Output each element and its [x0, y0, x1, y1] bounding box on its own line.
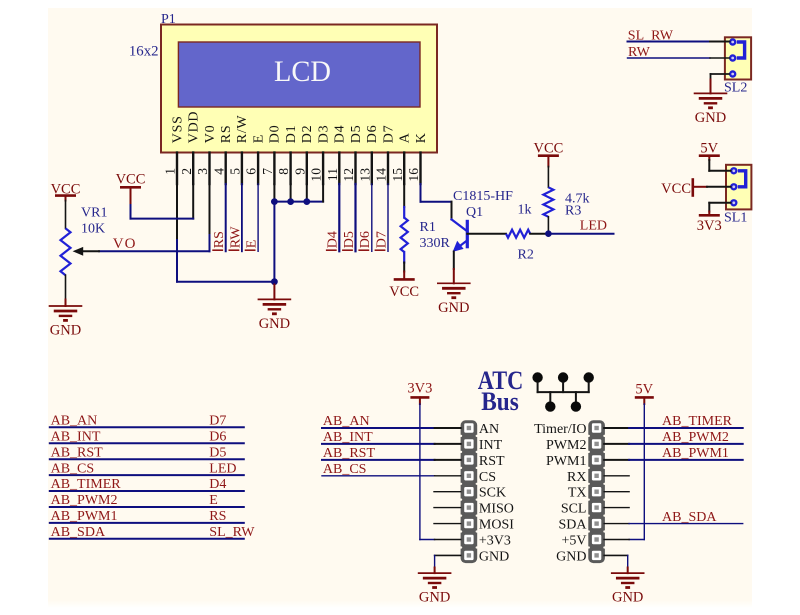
power 5V (SL1): [699, 140, 720, 160]
svg-text:GND: GND: [479, 549, 509, 564]
P1 pin 13 (D6): [357, 125, 380, 184]
svg-text:GND: GND: [556, 549, 586, 564]
svg-text:GND: GND: [419, 590, 450, 606]
svg-text:5: 5: [228, 168, 243, 175]
svg-text:10: 10: [309, 168, 324, 182]
svg-text:E: E: [245, 240, 260, 249]
svg-text:1: 1: [163, 168, 178, 175]
svg-text:SDA: SDA: [558, 518, 587, 533]
P1 pin 5 (R/W): [228, 115, 251, 184]
svg-text:RX: RX: [567, 470, 586, 485]
wire AB_SDA: [604, 523, 743, 525]
P1 pin 2 (VDD): [179, 111, 202, 184]
svg-text:D5: D5: [342, 231, 357, 248]
wire R1 to VCC: [403, 263, 405, 272]
wire Q1 base to R2: [467, 233, 506, 235]
resistor R1: [401, 207, 408, 263]
wire SL2 pin3 to GND: [711, 74, 730, 93]
net label D5 (rotated): [342, 231, 357, 250]
wire pin 8 stub: [290, 184, 292, 202]
svg-text:LED: LED: [580, 219, 607, 234]
stub MISO: [434, 507, 461, 509]
wire net AB_SDA/SL_RW: [50, 538, 244, 540]
svg-text:PWM2: PWM2: [546, 438, 586, 453]
svg-text:LED: LED: [209, 461, 236, 476]
svg-text:VDD: VDD: [187, 111, 202, 143]
wire left header GND: [435, 555, 461, 573]
svg-text:AB_TIMER: AB_TIMER: [51, 477, 122, 492]
net label D6 (rotated): [358, 231, 373, 250]
wire Q1 emitter down: [453, 252, 455, 270]
P1 pin 11 (D4): [325, 125, 348, 184]
svg-text:D5: D5: [209, 445, 226, 460]
svg-text:GND: GND: [259, 316, 290, 332]
svg-text:LCD: LCD: [274, 55, 331, 88]
wire pin 10 stub: [322, 184, 324, 202]
svg-text:11: 11: [325, 168, 340, 181]
wire AB_RST: [322, 459, 461, 461]
svg-text:3: 3: [195, 168, 210, 175]
wire R3 to node: [547, 217, 549, 234]
svg-text:R2: R2: [518, 248, 534, 263]
svg-text:E: E: [251, 134, 266, 143]
wire VCC to VDD pin2: [131, 184, 194, 219]
wire AB_PWM1: [604, 459, 743, 461]
svg-text:Timer/IO: Timer/IO: [534, 422, 586, 437]
P1 pin 3 (V0): [195, 125, 218, 184]
svg-text:13: 13: [357, 168, 372, 182]
svg-text:9: 9: [292, 168, 307, 175]
svg-text:3V3: 3V3: [697, 218, 722, 234]
svg-text:1k: 1k: [518, 203, 532, 218]
ground GND (VR1): [49, 305, 83, 307]
stub SCK: [434, 491, 461, 493]
svg-text:AB_PWM2: AB_PWM2: [51, 493, 118, 508]
pin header J-right (ATC bus right): [587, 420, 606, 563]
wire SL1 pin3 to 3V3: [709, 203, 730, 216]
svg-text:D7: D7: [209, 414, 226, 429]
svg-text:D1: D1: [284, 125, 299, 144]
svg-text:AB_TIMER: AB_TIMER: [662, 414, 733, 429]
junction pin8: [287, 198, 294, 205]
net label RW (rotated): [228, 226, 243, 251]
svg-text:10K: 10K: [81, 222, 105, 237]
wire RW: [628, 57, 730, 59]
wire R2 to node: [530, 233, 548, 235]
svg-text:D7: D7: [374, 231, 389, 248]
svg-text:VCC: VCC: [116, 172, 146, 188]
svg-text:RS: RS: [209, 509, 226, 524]
title ATC Bus: [478, 366, 524, 416]
wire VCC to VR1: [65, 201, 67, 229]
svg-text:AB_RST: AB_RST: [51, 445, 104, 460]
svg-text:AB_INT: AB_INT: [323, 430, 373, 445]
junction pin9: [303, 198, 310, 205]
wire pin 4 stub: [225, 184, 227, 251]
wire VSS to GND junction: [177, 281, 274, 283]
wire pin 13 stub: [371, 184, 373, 251]
wire net AB_TIMER/D4: [50, 490, 244, 492]
wire net AB_RST/D5: [50, 458, 244, 460]
svg-text:AB_PWM2: AB_PWM2: [662, 430, 729, 445]
svg-text:A: A: [398, 132, 413, 143]
wire net AB_CS/LED: [50, 474, 244, 476]
wire pin 5 stub: [241, 184, 243, 251]
svg-text:15: 15: [390, 168, 405, 182]
svg-text:14: 14: [374, 168, 389, 182]
junction R2/R3/LED: [545, 230, 552, 237]
svg-text:3V3: 3V3: [407, 381, 432, 397]
power VCC (for VDD pin2): [116, 172, 146, 206]
svg-text:R1: R1: [420, 220, 436, 235]
svg-text:INT: INT: [479, 438, 503, 453]
power VCC (VR1): [51, 181, 81, 200]
svg-text:P1: P1: [161, 12, 176, 27]
svg-text:AB_SDA: AB_SDA: [51, 525, 106, 540]
svg-text:AN: AN: [479, 422, 499, 437]
P1 pin 7 (D0): [260, 125, 283, 184]
svg-text:AB_PWM1: AB_PWM1: [662, 446, 729, 461]
resistor R2: [506, 230, 530, 238]
stub RX: [604, 475, 629, 477]
svg-text:GND: GND: [50, 323, 81, 339]
wire bus D0-D3: [274, 201, 323, 203]
stub SCL: [604, 507, 629, 509]
wire VCC to R3: [547, 167, 549, 188]
power 3V3 (SL1): [697, 215, 722, 234]
svg-text:D5: D5: [349, 125, 364, 144]
P1 pin 14 (D7): [374, 125, 397, 184]
svg-text:6: 6: [244, 168, 259, 175]
resistor R3: [543, 187, 553, 217]
P1 pin 1 (VSS): [163, 115, 186, 184]
bus icon: [532, 372, 594, 412]
svg-text:D0: D0: [268, 125, 283, 144]
svg-text:2: 2: [179, 168, 194, 175]
svg-text:VSS: VSS: [170, 115, 185, 143]
wire V0 (pin3) down: [209, 184, 211, 251]
svg-text:RS: RS: [219, 125, 234, 144]
wire SL_RW: [628, 41, 730, 43]
stub TX: [604, 491, 629, 493]
svg-text:TX: TX: [568, 486, 587, 501]
svg-text:+3V3: +3V3: [479, 534, 511, 549]
svg-text:VO: VO: [113, 236, 137, 252]
svg-text:5V: 5V: [635, 382, 653, 398]
P1 pin 9 (D2): [292, 125, 315, 184]
wire AB_CS: [322, 475, 461, 477]
svg-text:CS: CS: [479, 470, 496, 485]
svg-text:AB_CS: AB_CS: [323, 462, 367, 477]
power VCC (above R3): [533, 140, 563, 166]
svg-text:R3: R3: [565, 204, 581, 219]
power 3V3 (bus): [407, 381, 432, 404]
svg-text:RS: RS: [212, 231, 227, 248]
wire pin 11 stub: [338, 184, 340, 251]
svg-text:E: E: [209, 493, 218, 508]
wire AB_TIMER: [604, 427, 743, 429]
svg-text:AB_CS: AB_CS: [51, 461, 95, 476]
svg-text:330R: 330R: [420, 236, 451, 251]
wire pin 14 stub: [387, 184, 389, 251]
svg-text:D6: D6: [365, 125, 380, 144]
svg-text:SL1: SL1: [724, 210, 747, 225]
wire AB_INT: [322, 443, 461, 445]
wire pin 12 stub: [354, 184, 356, 251]
svg-text:+5V: +5V: [561, 534, 586, 549]
svg-text:D4: D4: [326, 231, 341, 248]
stub MOSI: [434, 523, 461, 525]
svg-text:D4: D4: [209, 477, 226, 492]
svg-text:D2: D2: [300, 125, 315, 144]
wire AB_PWM2: [604, 443, 743, 445]
power 5V (bus): [635, 382, 654, 404]
svg-text:5V: 5V: [700, 140, 718, 156]
svg-text:GND: GND: [612, 590, 643, 606]
connector SL1: [726, 165, 751, 210]
svg-text:V0: V0: [203, 125, 218, 144]
wire VR1 to GND: [65, 275, 67, 306]
svg-text:RW: RW: [228, 226, 243, 249]
ground GND (center, LCD): [258, 285, 292, 333]
svg-text:AB_AN: AB_AN: [51, 414, 98, 429]
P1 pin 15 (A): [390, 132, 413, 184]
svg-text:AB_RST: AB_RST: [323, 446, 376, 461]
wire LED net: [548, 233, 613, 235]
wire net AB_PWM2/E: [50, 506, 244, 508]
svg-text:SCK: SCK: [479, 486, 506, 501]
ground GND (Q1 emitter): [437, 269, 471, 316]
svg-text:Bus: Bus: [481, 387, 519, 416]
wire 5V rail to +5V pin: [604, 404, 644, 540]
ground GND (right header): [611, 572, 645, 574]
svg-text:GND: GND: [695, 110, 726, 126]
svg-text:AB_SDA: AB_SDA: [662, 510, 717, 525]
svg-text:VCC: VCC: [533, 140, 563, 156]
svg-text:VR1: VR1: [81, 206, 107, 221]
ground GND (left header): [418, 572, 452, 574]
P1 pin 8 (D1): [276, 125, 299, 184]
junction pin7: [271, 198, 278, 205]
svg-text:D3: D3: [316, 125, 331, 144]
wire VO net to V0: [99, 250, 210, 252]
wire AB_AN: [322, 427, 461, 429]
P1 pin 16 (K): [406, 132, 429, 184]
svg-text:7: 7: [260, 168, 275, 175]
wire pin 9 stub: [306, 184, 308, 202]
svg-text:GND: GND: [438, 300, 469, 316]
P1 pin 10 (D3): [309, 125, 332, 184]
svg-text:AB_AN: AB_AN: [323, 414, 370, 429]
svg-text:SL_RW: SL_RW: [209, 525, 255, 540]
svg-text:D6: D6: [209, 429, 226, 444]
P1 pin 6 (E): [244, 134, 267, 184]
wire VCC to SL1 pin2: [694, 186, 731, 188]
svg-text:12: 12: [341, 168, 356, 182]
svg-text:SCL: SCL: [561, 502, 587, 517]
wire net AB_AN/D7: [50, 426, 244, 428]
svg-text:16: 16: [406, 168, 421, 182]
svg-text:PWM1: PWM1: [546, 454, 586, 469]
ground GND (SL2): [694, 92, 728, 94]
svg-text:MOSI: MOSI: [479, 518, 514, 533]
connector SL2: [725, 37, 751, 79]
svg-text:AB_PWM1: AB_PWM1: [51, 509, 118, 524]
svg-text:D7: D7: [381, 125, 396, 144]
wire net AB_PWM1/RS: [50, 522, 244, 524]
svg-text:C1815-HF: C1815-HF: [453, 189, 513, 204]
pin header J-left (ATC bus left): [460, 420, 479, 563]
junction VSS/D0 ground node: [271, 278, 278, 285]
svg-text:K: K: [414, 132, 429, 143]
P1 pin 12 (D5): [341, 125, 364, 184]
svg-text:8: 8: [276, 168, 291, 175]
wire D0 (pin7) down: [273, 184, 275, 282]
wire A (pin15) to R1: [403, 184, 405, 207]
wire net AB_INT/D6: [50, 442, 244, 444]
svg-text:AB_INT: AB_INT: [51, 429, 101, 444]
wire VSS (pin1) down: [176, 184, 178, 282]
svg-text:VCC: VCC: [661, 181, 691, 197]
potentiometer VR1: [61, 228, 100, 275]
svg-text:MISO: MISO: [479, 502, 514, 517]
net label E (rotated): [245, 240, 260, 251]
power VCC (below R1, flipped): [389, 272, 419, 300]
net label D7 (rotated): [374, 231, 389, 250]
wire right header GND: [604, 555, 628, 573]
wire 5V to SL1 pin1: [709, 160, 730, 171]
svg-text:VCC: VCC: [389, 284, 419, 300]
P1 pin 4 (RS): [211, 125, 234, 184]
svg-text:SL2: SL2: [724, 80, 747, 95]
transistor Q1: [452, 219, 468, 252]
wire K (pin16) to Q1 collector: [421, 184, 452, 219]
svg-text:D6: D6: [358, 231, 373, 248]
net label D4 (rotated): [326, 231, 341, 250]
svg-text:16x2: 16x2: [129, 43, 159, 59]
svg-text:D4: D4: [333, 125, 348, 144]
svg-text:R/W: R/W: [235, 115, 250, 144]
wire 3V3 rail to +3V3 pin: [420, 404, 461, 540]
power VCC (SL1, right facing): [661, 180, 693, 197]
svg-text:4: 4: [211, 168, 226, 175]
wire pin 6 stub: [257, 184, 259, 251]
connector P1 (LCD 16x2): [161, 25, 437, 153]
svg-text:Q1: Q1: [466, 205, 483, 220]
svg-text:RST: RST: [479, 454, 505, 469]
net label RS (rotated): [212, 231, 227, 250]
